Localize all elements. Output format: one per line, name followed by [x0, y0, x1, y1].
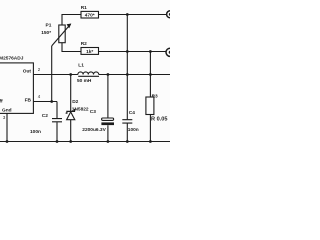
- junction rail R3: [149, 140, 152, 143]
- svg-text:100n: 100n: [128, 127, 139, 133]
- resistor R2 box: [81, 48, 99, 55]
- wire vertical R2 line down to Vout line x150.4: [149, 52, 151, 75]
- svg-text:2200u6.3V: 2200u6.3V: [82, 127, 106, 133]
- diode D2 branch wires: [70, 75, 72, 142]
- wire R2 right to bottom connector: [99, 51, 167, 53]
- svg-text:470*: 470*: [85, 13, 95, 19]
- svg-text:D2: D2: [72, 99, 78, 105]
- inductor L1 humps: [78, 72, 99, 75]
- capacitor C4 plates: [122, 120, 132, 123]
- junction FB wiper: [50, 100, 53, 103]
- connector X1 top circle: [167, 11, 174, 18]
- svg-text:1N5822: 1N5822: [72, 106, 89, 112]
- resistor R3 branch wire bottom: [149, 115, 151, 142]
- svg-text:L1: L1: [78, 62, 84, 68]
- junction Vout C4: [126, 73, 129, 76]
- diode D2 schottky bar: [66, 110, 76, 114]
- potentiometer P1 box: [59, 25, 65, 43]
- potentiometer P1 arrowhead: [68, 24, 71, 27]
- svg-text:100n: 100n: [30, 129, 41, 135]
- svg-text:R2: R2: [81, 41, 87, 47]
- svg-text:On/Off: On/Off: [0, 98, 3, 104]
- ground rail: [0, 141, 170, 143]
- svg-text:P1: P1: [46, 23, 52, 29]
- wire FB line from IC pin4: [33, 101, 57, 103]
- wire Vout line right of inductor: [99, 74, 170, 76]
- svg-text:C4: C4: [129, 110, 135, 116]
- junction rail pin3: [6, 140, 9, 143]
- svg-text:1k*: 1k*: [86, 49, 93, 55]
- svg-text:50 mH: 50 mH: [77, 78, 92, 84]
- connector X2 inner dot: [169, 51, 172, 54]
- capacitor C2 branch wires: [56, 102, 58, 142]
- junction rail D2: [69, 140, 72, 143]
- junction rail C4: [126, 140, 129, 143]
- svg-text:Out: Out: [23, 68, 32, 74]
- connector X1 inner dot: [169, 13, 172, 16]
- wire R1 right to top connector: [99, 14, 167, 16]
- potentiometer P1 wiper arrow: [52, 24, 71, 46]
- wire pot wiper vertical to FB node: [51, 46, 53, 102]
- junction Vout C3: [107, 73, 110, 76]
- connector X2 bottom circle: [166, 48, 174, 56]
- capacitor C2 plates: [52, 119, 62, 122]
- svg-text:R3: R3: [152, 94, 158, 100]
- resistor R3 branch wire top: [149, 75, 151, 98]
- svg-text:C3: C3: [90, 109, 96, 115]
- resistor R1 box: [81, 11, 99, 18]
- svg-text:R1: R1: [81, 5, 87, 11]
- IC pin 3 wire: [6, 113, 8, 141]
- junction top R1-column: [126, 13, 129, 16]
- svg-text:Gnd: Gnd: [2, 107, 12, 113]
- wire pot bottom to R2 left: [62, 43, 81, 52]
- junction Vout D2: [69, 73, 72, 76]
- inductor L1 core line: [78, 75, 99, 77]
- wire Vout rail y74 from IC pin2: [33, 74, 78, 76]
- svg-text:LM2576ADJ: LM2576ADJ: [0, 55, 24, 61]
- svg-text:FB: FB: [25, 98, 32, 104]
- junction rail C2: [56, 140, 59, 143]
- capacitor C3 branch wires: [107, 75, 109, 142]
- capacitor C3 positive plate: [102, 118, 114, 120]
- resistor R3 box: [146, 97, 154, 115]
- svg-text:C2: C2: [42, 113, 48, 119]
- wire long vertical output column x127.3: [126, 15, 128, 142]
- capacitor C3 negative plate: [101, 122, 114, 125]
- wire pot top to R1 left: [62, 15, 81, 26]
- junction R2 line x150: [149, 50, 152, 53]
- diode D2 triangle: [67, 112, 75, 120]
- svg-text:150*: 150*: [41, 30, 51, 36]
- junction Vout R3: [149, 73, 152, 76]
- op-amp U1 LM2576ADJ box: [0, 63, 33, 114]
- junction R2 line x127: [126, 50, 129, 53]
- junction rail C3: [107, 140, 110, 143]
- svg-text:R 0.05: R 0.05: [151, 117, 167, 123]
